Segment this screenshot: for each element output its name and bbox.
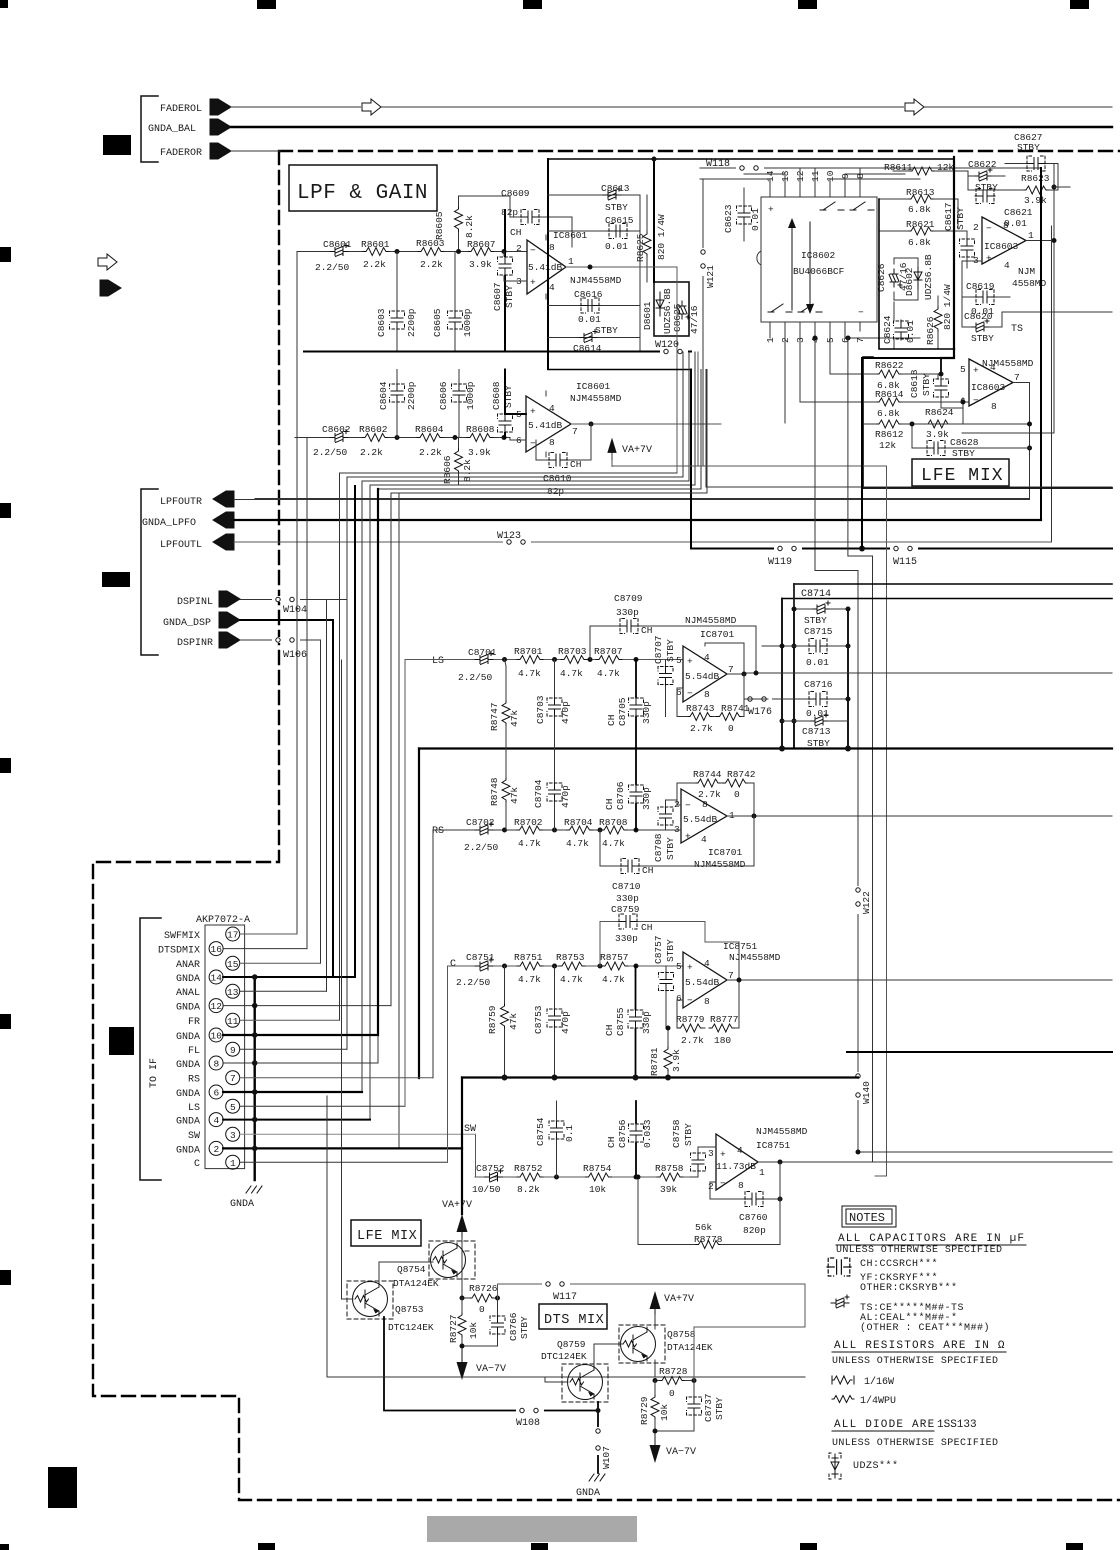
wire col1054 bottom elbow [962, 432, 1054, 434]
wire Q8754 emitter [465, 1250, 469, 1252]
resistor R8624 [925, 407, 954, 440]
svg-text:R8701: R8701 [514, 646, 543, 657]
ground GNDA [230, 1186, 262, 1210]
svg-text:−: − [973, 395, 979, 406]
svg-text:DTA124EK: DTA124EK [667, 1342, 713, 1353]
svg-text:8.2k: 8.2k [462, 459, 473, 482]
svg-text:47/16: 47/16 [689, 305, 700, 334]
junction dot ls out [744, 673, 756, 674]
capacitor C8613 [601, 183, 630, 213]
wire FADEROL [231, 106, 1112, 108]
wire bus 1077 [462, 1076, 858, 1078]
wire DSPINL [240, 599, 347, 601]
svg-text:39k: 39k [660, 1184, 677, 1195]
capacitor C8616 [574, 289, 618, 336]
svg-text:C8703: C8703 [535, 695, 546, 724]
svg-text:ALL DIODE ARE: ALL DIODE ARE [834, 1419, 935, 1431]
filled arrow marker left margin [100, 280, 121, 296]
LPF & GAIN title box [289, 165, 437, 211]
svg-text:R8708: R8708 [599, 817, 628, 828]
capacitor C8619 [962, 261, 1010, 327]
wire box IC8601 top [548, 158, 954, 160]
jumper W115 [890, 546, 918, 569]
note 1/16W symbol [832, 1376, 894, 1388]
capacitor C8622 [968, 159, 1005, 193]
svg-text:2: 2 [973, 222, 979, 233]
svg-text:5.41dB: 5.41dB [528, 262, 563, 273]
svg-text:UDZS***: UDZS*** [853, 1460, 899, 1472]
svg-text:8.2k: 8.2k [464, 215, 475, 238]
svg-text:0.1: 0.1 [564, 1125, 575, 1142]
op-amp IC8701 section A [676, 646, 734, 702]
wire row12 [223, 1005, 391, 1007]
svg-text:2200p: 2200p [406, 308, 417, 337]
wire VA to Q8754 [461, 1238, 463, 1298]
svg-text:LFE MIX: LFE MIX [921, 466, 1004, 486]
svg-text:2.2/50: 2.2/50 [313, 447, 348, 458]
svg-text:−: − [687, 995, 693, 1006]
resistor R8614 [863, 389, 963, 419]
svg-text:4: 4 [549, 282, 555, 293]
svg-text:R8751: R8751 [514, 952, 543, 963]
wire col DSPINR [320, 640, 322, 963]
wire RS output [727, 815, 1112, 817]
svg-text:W119: W119 [768, 557, 792, 568]
capacitor C8716 [768, 679, 848, 719]
svg-text:C8757: C8757 [653, 935, 664, 964]
svg-text:R8602: R8602 [359, 424, 388, 435]
capacitor C8610 [536, 440, 591, 497]
junction dots col 1054 [1052, 187, 1057, 241]
svg-text:C8760: C8760 [739, 1212, 768, 1223]
svg-text:W107: W107 [601, 1446, 612, 1469]
svg-text:LPFOUTL: LPFOUTL [160, 540, 202, 551]
svg-text:R8624: R8624 [925, 407, 954, 418]
C8714 block outline [782, 584, 848, 749]
svg-text:C8758: C8758 [671, 1119, 682, 1148]
svg-text:GNDA: GNDA [230, 1199, 254, 1210]
note diode heading [832, 1419, 998, 1449]
registration mark bottom 4 [800, 1543, 817, 1550]
svg-text:10: 10 [211, 1031, 223, 1042]
wire GNDA bus [253, 977, 255, 1180]
svg-text:12k: 12k [879, 440, 896, 451]
svg-text:C8616: C8616 [574, 289, 603, 300]
svg-text:W115: W115 [893, 557, 917, 568]
svg-text:1: 1 [568, 256, 574, 267]
svg-text:0.01: 0.01 [806, 657, 829, 668]
wire Q8753 collector to Q8754 [379, 1262, 433, 1282]
svg-text:CH: CH [606, 715, 617, 726]
svg-text:C8608: C8608 [491, 381, 502, 410]
svg-text:R8779: R8779 [676, 1014, 705, 1025]
IC8602 plus minus [768, 204, 864, 318]
wire SW op inputs [698, 1147, 716, 1152]
svg-text:C8607: C8607 [492, 282, 503, 311]
wire GNDA_LPFO [234, 519, 1041, 521]
svg-text:NJM4558MD: NJM4558MD [570, 275, 622, 286]
svg-text:15: 15 [227, 959, 239, 970]
note resistors heading [832, 1340, 1006, 1367]
svg-text:D8602: D8602 [904, 267, 915, 296]
op-amp IC8751 section B [708, 1134, 765, 1192]
power VA+7V lfe [442, 1200, 472, 1248]
jumper W106 [272, 637, 307, 661]
svg-text:C8766: C8766 [508, 1312, 519, 1341]
svg-text:ALL RESISTORS ARE IN Ω: ALL RESISTORS ARE IN Ω [834, 1340, 1006, 1352]
svg-text:C8621: C8621 [1004, 207, 1033, 218]
svg-text:R8601: R8601 [361, 239, 390, 250]
svg-text:−: − [687, 688, 693, 699]
transistor Q8758 [619, 1325, 713, 1363]
wire C row [448, 965, 684, 967]
resistor R8703 [558, 646, 587, 679]
wire bus322 row [879, 199, 954, 349]
svg-text:FL: FL [188, 1046, 200, 1057]
svg-text:R8606: R8606 [442, 455, 453, 484]
jumper W176 wire [744, 698, 768, 700]
connector arrow LPFOUTR [213, 491, 234, 507]
wire box row C8615 [548, 230, 640, 232]
svg-text:14: 14 [211, 973, 223, 984]
pin 12 [176, 999, 223, 1014]
transistor Q8753 [347, 1281, 434, 1333]
svg-text:5.41dB: 5.41dB [528, 420, 563, 431]
jumper W119 [768, 546, 802, 569]
svg-text:IC8601: IC8601 [576, 381, 611, 392]
junction dot lfe minus [912, 402, 963, 424]
op-amp IC8601 section A [516, 235, 574, 299]
wire RS plus input [665, 800, 681, 830]
svg-text:7: 7 [728, 970, 734, 981]
op-amp IC8751 section A [676, 952, 734, 1008]
svg-text:R8707: R8707 [594, 646, 623, 657]
svg-text:5.54dB: 5.54dB [685, 671, 720, 682]
svg-text:−: − [530, 245, 536, 256]
capacitor C8620 [962, 311, 1002, 344]
svg-text:8.2k: 8.2k [517, 1184, 540, 1195]
resistor R8707 [594, 646, 623, 679]
label NJM4558MD right [1012, 266, 1047, 289]
wire nest elbow C [362, 352, 689, 1092]
resistor R8748 vertical [489, 749, 520, 831]
svg-text:W122: W122 [861, 891, 872, 914]
svg-text:C8602: C8602 [322, 424, 351, 435]
svg-text:180: 180 [714, 1035, 731, 1046]
svg-text:ALL CAPACITORS ARE IN µF: ALL CAPACITORS ARE IN µF [838, 1233, 1025, 1245]
wire C op fb box [666, 942, 739, 1028]
IC U8602 BU4066BCF body [757, 197, 877, 322]
svg-text:5.54dB: 5.54dB [685, 977, 720, 988]
registration mark bottom 2 [258, 1543, 275, 1550]
capacitor C8709 [590, 593, 756, 673]
svg-text:STBY: STBY [1017, 142, 1040, 153]
junction dot w108 q8759 [596, 1408, 601, 1413]
resistor R8625 vertical [635, 195, 667, 282]
wire VA7 rail 466 [612, 352, 887, 466]
svg-text:R8741: R8741 [721, 703, 750, 714]
svg-text:11.73dB: 11.73dB [716, 1161, 756, 1172]
svg-text:6.8k: 6.8k [908, 204, 931, 215]
NOTES title box [842, 1206, 896, 1227]
pin 10 [176, 1028, 223, 1043]
capacitor C8756 [606, 1101, 653, 1177]
junction dots bus 1077 [505, 1075, 669, 1081]
op-amp IC8603 section A [973, 217, 1034, 271]
pin 4 [176, 1113, 223, 1128]
connector arrow DSPINL [219, 591, 240, 607]
resistor R8708 [599, 817, 628, 849]
capacitor C8714 [794, 584, 848, 626]
svg-text:0: 0 [479, 1304, 485, 1315]
svg-text:GNDA: GNDA [176, 1146, 200, 1157]
wire row 673 [744, 672, 1112, 674]
capacitor C8760 [710, 1162, 780, 1236]
svg-text:W117: W117 [553, 1292, 577, 1303]
resistor R8777 [709, 1014, 739, 1046]
wire col SW thick [461, 1078, 463, 1215]
registration mark bottom-left [0, 1544, 9, 1550]
capacitor C8627 [1005, 132, 1058, 171]
svg-text:LS: LS [188, 1103, 200, 1114]
svg-text:STBY: STBY [714, 1397, 725, 1420]
svg-text:GNDA: GNDA [176, 1032, 200, 1043]
svg-text:0: 0 [728, 723, 734, 734]
svg-text:−: − [858, 307, 864, 318]
block mark near FADEROR [103, 135, 131, 155]
wire RS row [433, 829, 665, 831]
dashed schematic border [93, 151, 1120, 1500]
svg-text:VA−7V: VA−7V [666, 1447, 696, 1458]
svg-text:−: − [720, 1178, 726, 1189]
svg-text:R8757: R8757 [600, 952, 629, 963]
svg-text:R8727: R8727 [448, 1314, 459, 1343]
capacitor C8617 [943, 199, 975, 268]
svg-text:C8603: C8603 [376, 308, 387, 337]
capacitor C8601 [315, 239, 352, 273]
svg-text:C8622: C8622 [968, 159, 997, 170]
svg-text:C8706: C8706 [615, 781, 626, 810]
svg-text:C8620: C8620 [964, 311, 993, 322]
wire C8618 top link [940, 358, 942, 374]
wire row 598 [782, 598, 1112, 600]
wire IC8603A output [1026, 240, 1054, 242]
op-amp IC8603 section B [960, 359, 1020, 412]
svg-text:FR: FR [188, 1017, 200, 1028]
svg-text:R8607: R8607 [467, 239, 496, 250]
svg-text:330p: 330p [615, 933, 638, 944]
svg-text:R8702: R8702 [514, 817, 543, 828]
wire col 862 thick [862, 358, 940, 549]
svg-text:5: 5 [676, 961, 682, 972]
junction dot r8781 [666, 1026, 671, 1031]
svg-text:IC8602: IC8602 [801, 250, 836, 261]
svg-text:SWFMIX: SWFMIX [164, 931, 200, 942]
svg-text:2.2k: 2.2k [419, 447, 442, 458]
wire GNDA_DSP [240, 619, 333, 621]
svg-text:STBY: STBY [807, 738, 830, 749]
svg-text:C8605: C8605 [432, 308, 443, 337]
svg-text:+: + [768, 204, 774, 215]
svg-text:UNLESS OTHERWISE SPECIFIED: UNLESS OTHERWISE SPECIFIED [836, 1245, 1002, 1256]
svg-text:1: 1 [1028, 230, 1034, 241]
wire C op output [727, 979, 1112, 981]
wire row16 [223, 948, 307, 950]
svg-text:+: + [986, 253, 992, 264]
capacitor C8615 [605, 215, 634, 252]
svg-text:8: 8 [704, 996, 710, 1007]
svg-text:470p: 470p [560, 1011, 571, 1034]
svg-text:7: 7 [1014, 372, 1020, 383]
junction dot W bus [859, 546, 865, 552]
svg-text:R8748: R8748 [489, 777, 500, 806]
wire row11 [240, 1019, 340, 1021]
resistor R8753 [556, 952, 585, 985]
svg-text:2.2/50: 2.2/50 [456, 977, 491, 988]
pin 1 [194, 1155, 240, 1170]
wire Q8758 emitter [654, 1315, 656, 1329]
svg-text:C8708: C8708 [653, 833, 664, 862]
svg-text:C8701: C8701 [468, 647, 497, 658]
svg-text:NJM4558MD: NJM4558MD [570, 393, 622, 404]
junction dot C8618 [939, 372, 944, 377]
pin 11 [188, 1013, 240, 1028]
bracket LPFOUT group [141, 489, 158, 655]
resistor R8608 [466, 424, 495, 458]
power VA-7V lfe [457, 1346, 507, 1380]
wire left col 307 [295, 438, 307, 949]
svg-text:+: + [687, 962, 693, 973]
capacitor C8710 [600, 816, 754, 904]
junction dot rs out [752, 814, 757, 819]
resistor R8728 [655, 1366, 694, 1399]
ground GNDA dts [576, 1474, 605, 1499]
transistor Q8759 [541, 1339, 608, 1402]
svg-text:56k: 56k [695, 1222, 712, 1233]
svg-text:STBY: STBY [665, 837, 676, 860]
resistor R8758 [655, 1163, 684, 1195]
wire Q8758 collector [654, 1360, 656, 1377]
svg-text:2200p: 2200p [406, 381, 417, 410]
svg-text:SW: SW [188, 1131, 200, 1142]
wire col DSPINL [346, 477, 348, 600]
wire Q8759 base [545, 1377, 568, 1382]
block mark near TO IF [109, 1027, 134, 1055]
svg-text:IC8603: IC8603 [984, 241, 1019, 252]
svg-text:R8604: R8604 [415, 424, 444, 435]
wire row1 [240, 1161, 448, 1163]
svg-text:0.01: 0.01 [905, 320, 916, 343]
svg-text:DTC124EK: DTC124EK [388, 1322, 434, 1333]
svg-text:R8729: R8729 [639, 1396, 650, 1425]
resistor R8613 [879, 187, 948, 215]
junction dots GNDA bus [252, 977, 258, 1148]
svg-text:17: 17 [227, 930, 238, 941]
svg-text:IC8601: IC8601 [553, 230, 588, 241]
svg-text:4.7k: 4.7k [597, 668, 620, 679]
connector arrow DSPINR [219, 632, 240, 648]
resistor R8729 vertical [639, 1381, 670, 1442]
transistor Q8754 [393, 1241, 475, 1289]
svg-text:8: 8 [549, 242, 555, 253]
IC8602 bottom pins [765, 322, 866, 343]
wire col 307 top [306, 437, 308, 439]
capacitor C8628 [912, 424, 1030, 459]
wire lfe minus node [925, 398, 969, 424]
junction dots input row R [397, 435, 504, 440]
wire input row R (second) [297, 437, 510, 439]
wire Q8758 base gray [694, 1284, 805, 1381]
wire left col 297 [296, 252, 298, 935]
svg-text:2: 2 [708, 1181, 714, 1192]
svg-text:7: 7 [572, 426, 578, 437]
resistor R8778 [638, 1162, 780, 1249]
resistor R8727 vertical [448, 1298, 479, 1358]
svg-text:R8613: R8613 [906, 187, 935, 198]
capacitor C8706 [604, 749, 652, 831]
junction dot bus748 [782, 746, 848, 752]
svg-text:0: 0 [669, 1388, 675, 1399]
svg-text:2.2k: 2.2k [360, 447, 383, 458]
svg-text:4: 4 [1004, 260, 1010, 271]
wire lfe box bottom [863, 487, 1112, 489]
svg-text:CH: CH [641, 922, 652, 933]
svg-text:IC8751: IC8751 [756, 1140, 791, 1151]
resistor R8623 [968, 164, 1058, 207]
resistor R8601 [361, 239, 390, 270]
svg-text:4.7k: 4.7k [560, 974, 583, 985]
svg-text:VA+7V: VA+7V [622, 445, 652, 456]
svg-text:5: 5 [960, 364, 966, 375]
resistor R8607 [467, 239, 496, 270]
wire LFE enclosure top-left [863, 357, 873, 488]
IC8602 switch symbols top [820, 202, 874, 210]
capacitor C8608 [491, 370, 526, 438]
svg-text:C8704: C8704 [533, 779, 544, 808]
svg-text:CH: CH [510, 227, 521, 238]
svg-text:0.033: 0.033 [642, 1119, 653, 1148]
wire bus 954 lower [941, 349, 954, 358]
wire row17 [240, 933, 297, 935]
wire right col 1054 [1054, 164, 1058, 434]
op-amp IC8701 section B [674, 789, 735, 845]
wire pin6 elbow to col848 [848, 337, 920, 339]
svg-text:R8612: R8612 [875, 429, 904, 440]
wire nest elbow D [370, 352, 695, 1120]
svg-text:STBY: STBY [955, 207, 966, 230]
resistor R8747 vertical [489, 660, 520, 749]
svg-text:5: 5 [230, 1102, 236, 1113]
resistor R8757 [600, 952, 629, 985]
junction dot 654-159 [652, 157, 657, 162]
wire Q8759 emitter to W107 [597, 1402, 599, 1473]
junction dot r8778 [636, 1175, 641, 1180]
wire W119 bus [691, 548, 1112, 550]
node TS [1002, 312, 1112, 335]
wire col W104 [327, 600, 348, 992]
svg-text:NJM4558MD: NJM4558MD [685, 615, 737, 626]
svg-text:STBY: STBY [519, 1316, 530, 1339]
resistor R8743 [677, 703, 716, 734]
wire col 1041 thick [1040, 168, 1042, 520]
svg-text:W108: W108 [516, 1418, 540, 1429]
resistor R8759 vertical [487, 966, 519, 1078]
wire IC8603B output loop [255, 383, 1030, 499]
svg-text:LPF & GAIN: LPF & GAIN [297, 182, 428, 205]
svg-text:STBY: STBY [804, 615, 827, 626]
svg-text:STBY: STBY [605, 202, 628, 213]
wire row3 gray [240, 1133, 476, 1135]
